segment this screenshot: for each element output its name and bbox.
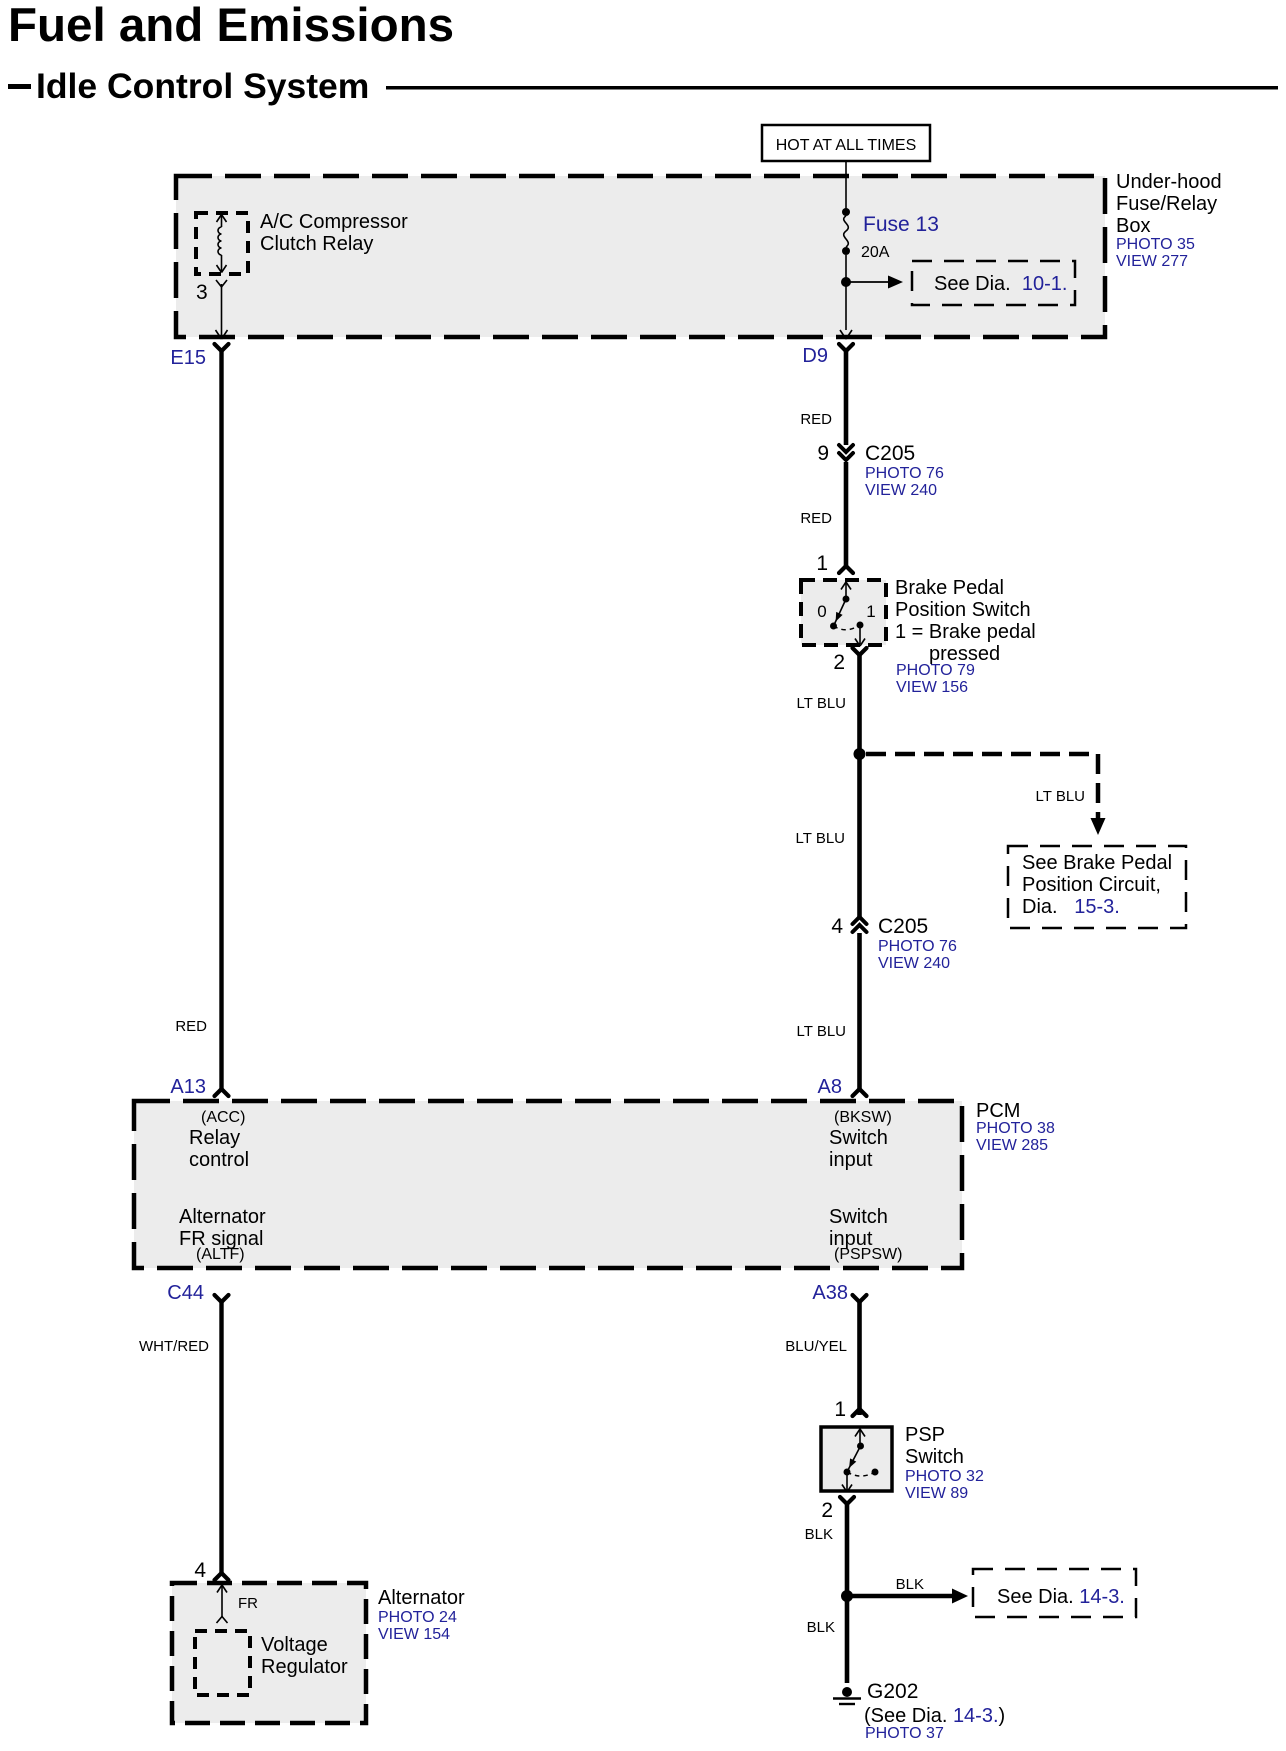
svg-text:Switch: Switch	[905, 1446, 964, 1468]
svg-text:4: 4	[194, 1559, 206, 1582]
svg-text:VIEW 277: VIEW 277	[1116, 253, 1188, 270]
svg-text:1: 1	[816, 552, 828, 575]
svg-text:A/C Compressor: A/C Compressor	[260, 211, 408, 233]
svg-text:Relay: Relay	[189, 1127, 240, 1149]
svg-text:Position Circuit,: Position Circuit,	[1022, 874, 1161, 896]
svg-text:control: control	[189, 1149, 249, 1171]
svg-text:Position Switch: Position Switch	[895, 599, 1031, 621]
svg-text:3: 3	[196, 281, 208, 304]
svg-text:VIEW 240: VIEW 240	[865, 482, 937, 499]
svg-text:Idle Control System: Idle Control System	[36, 66, 369, 106]
svg-text:Box: Box	[1116, 215, 1150, 237]
svg-text:(See Dia. 14-3.): (See Dia. 14-3.)	[864, 1705, 1005, 1727]
svg-text:PHOTO 32: PHOTO 32	[905, 1468, 984, 1485]
svg-text:(ACC): (ACC)	[201, 1109, 245, 1126]
svg-text:PHOTO 24: PHOTO 24	[378, 1609, 457, 1626]
svg-text:Switch: Switch	[829, 1127, 888, 1149]
svg-text:LT BLU: LT BLU	[796, 830, 845, 847]
svg-text:4: 4	[831, 915, 843, 938]
svg-text:VIEW 240: VIEW 240	[878, 955, 950, 972]
svg-text:1 = Brake pedal: 1 = Brake pedal	[895, 621, 1036, 643]
svg-text:VIEW 285: VIEW 285	[976, 1137, 1048, 1154]
svg-text:A38: A38	[812, 1282, 848, 1304]
svg-text:A13: A13	[170, 1076, 206, 1098]
svg-text:HOT AT ALL TIMES: HOT AT ALL TIMES	[776, 137, 917, 154]
svg-text:BLU/YEL: BLU/YEL	[785, 1338, 847, 1355]
svg-text:VIEW 89: VIEW 89	[905, 1485, 968, 1502]
svg-text:PCM: PCM	[976, 1100, 1020, 1122]
svg-text:PSP: PSP	[905, 1424, 945, 1446]
svg-text:Voltage: Voltage	[261, 1634, 328, 1656]
svg-text:input: input	[829, 1149, 873, 1171]
svg-text:WHT/RED: WHT/RED	[139, 1338, 209, 1355]
svg-text:RED: RED	[800, 411, 832, 428]
svg-text:See Brake Pedal: See Brake Pedal	[1022, 852, 1172, 874]
svg-text:1: 1	[866, 602, 875, 621]
svg-text:A8: A8	[818, 1076, 842, 1098]
svg-text:BLK: BLK	[896, 1576, 924, 1593]
svg-text:PHOTO 38: PHOTO 38	[976, 1120, 1055, 1137]
svg-text:E15: E15	[170, 347, 206, 369]
svg-text:PHOTO 76: PHOTO 76	[878, 938, 957, 955]
svg-text:C205: C205	[878, 915, 928, 938]
svg-text:BLK: BLK	[805, 1526, 833, 1543]
svg-text:LT BLU: LT BLU	[797, 695, 846, 712]
svg-text:9: 9	[817, 442, 829, 465]
svg-text:PHOTO 79: PHOTO 79	[896, 662, 975, 679]
svg-text:(BKSW): (BKSW)	[834, 1109, 892, 1126]
svg-text:Fuse/Relay: Fuse/Relay	[1116, 193, 1217, 215]
svg-text:RED: RED	[800, 510, 832, 527]
svg-text:FR: FR	[238, 1595, 258, 1612]
svg-text:PHOTO 76: PHOTO 76	[865, 465, 944, 482]
svg-text:2: 2	[821, 1499, 833, 1522]
svg-text:Switch: Switch	[829, 1206, 888, 1228]
svg-text:G202: G202	[867, 1680, 918, 1703]
svg-text:2: 2	[833, 651, 845, 674]
svg-text:D9: D9	[802, 345, 828, 367]
svg-text:0: 0	[817, 602, 826, 621]
svg-text:Regulator: Regulator	[261, 1656, 348, 1678]
svg-text:LT BLU: LT BLU	[797, 1023, 846, 1040]
svg-text:LT BLU: LT BLU	[1036, 788, 1085, 805]
svg-text:Under-hood: Under-hood	[1116, 171, 1222, 193]
svg-text:RED: RED	[175, 1018, 207, 1035]
svg-text:See Dia. 10-1.: See Dia. 10-1.	[934, 273, 1067, 295]
svg-text:Brake Pedal: Brake Pedal	[895, 577, 1004, 599]
svg-text:BLK: BLK	[807, 1619, 835, 1636]
svg-text:PHOTO 35: PHOTO 35	[1116, 236, 1195, 253]
svg-text:VIEW 156: VIEW 156	[896, 679, 968, 696]
svg-text:Fuel and Emissions: Fuel and Emissions	[8, 0, 454, 52]
svg-text:Clutch Relay: Clutch Relay	[260, 233, 373, 255]
svg-text:Alternator: Alternator	[378, 1587, 465, 1609]
svg-text:VIEW 154: VIEW 154	[378, 1626, 450, 1643]
svg-text:Alternator: Alternator	[179, 1206, 266, 1228]
svg-text:C44: C44	[167, 1282, 204, 1304]
svg-text:C205: C205	[865, 442, 915, 465]
svg-text:1: 1	[834, 1398, 846, 1421]
svg-text:Fuse 13: Fuse 13	[863, 213, 939, 236]
svg-text:Dia. 15-3.: Dia. 15-3.	[1022, 896, 1120, 918]
svg-text:(ALTF): (ALTF)	[196, 1246, 245, 1263]
svg-text:20A: 20A	[861, 244, 890, 261]
svg-text:(PSPSW): (PSPSW)	[834, 1246, 902, 1263]
svg-text:See Dia. 14-3.: See Dia. 14-3.	[997, 1586, 1125, 1608]
svg-text:PHOTO 37: PHOTO 37	[865, 1725, 944, 1742]
